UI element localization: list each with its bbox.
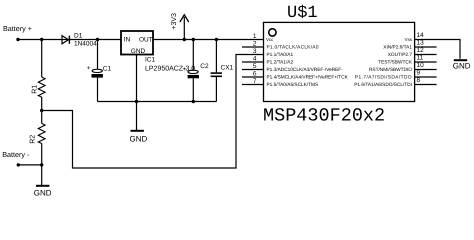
- svg-text:P1.7/A7/SDI/SDA/TDO: P1.7/A7/SDI/SDA/TDO: [355, 75, 412, 81]
- svg-text:R2: R2: [30, 135, 37, 144]
- svg-text:Vss: Vss: [405, 37, 413, 42]
- svg-text:6: 6: [253, 71, 257, 78]
- svg-text:Battery +: Battery +: [3, 24, 32, 33]
- svg-text:XIN/P2.6/TA1: XIN/P2.6/TA1: [383, 45, 412, 51]
- svg-text:U$1: U$1: [287, 4, 318, 23]
- svg-text:Battery -: Battery -: [2, 150, 30, 159]
- svg-text:10: 10: [417, 62, 425, 69]
- svg-text:RST/NMI/SBWTDIO: RST/NMI/SBWTDIO: [369, 67, 412, 73]
- svg-text:P1.0/TACLK/ACLK/A0: P1.0/TACLK/ACLK/A0: [267, 45, 319, 51]
- svg-text:P1.2/TA1/A2: P1.2/TA1/A2: [267, 60, 294, 66]
- svg-text:P1.5/TA0/A5/SCLK/TMS: P1.5/TA0/A5/SCLK/TMS: [267, 82, 319, 88]
- svg-text:9: 9: [417, 70, 421, 77]
- svg-text:GND: GND: [131, 48, 146, 55]
- svg-text:LP2950ACZ-3.0: LP2950ACZ-3.0: [145, 65, 195, 72]
- svg-text:+3V3: +3V3: [171, 13, 178, 30]
- svg-text:3: 3: [253, 48, 257, 55]
- svg-text:12: 12: [417, 47, 425, 54]
- svg-text:13: 13: [417, 40, 425, 47]
- svg-text:GND: GND: [453, 61, 471, 70]
- svg-text:P1.6/TA1/A6/SDO/SCL/TDI: P1.6/TA1/A6/SDO/SCL/TDI: [354, 82, 412, 88]
- svg-text:2: 2: [253, 41, 257, 48]
- svg-text:D1: D1: [74, 33, 83, 40]
- svg-text:OUT: OUT: [139, 37, 153, 44]
- svg-text:14: 14: [417, 32, 425, 39]
- svg-text:11: 11: [417, 55, 424, 62]
- svg-text:P1.1/TA0/A1: P1.1/TA0/A1: [267, 52, 294, 58]
- svg-text:IC1: IC1: [145, 57, 156, 64]
- svg-text:C1: C1: [103, 66, 112, 73]
- svg-text:IN: IN: [124, 37, 131, 44]
- svg-text:4: 4: [253, 56, 257, 63]
- svg-text:8: 8: [417, 77, 421, 84]
- svg-text:CX1: CX1: [221, 65, 234, 72]
- svg-text:GND: GND: [130, 134, 148, 143]
- svg-text:5: 5: [253, 63, 257, 70]
- svg-text:XOUT/P2.7: XOUT/P2.7: [388, 52, 413, 58]
- svg-text:1: 1: [253, 33, 257, 40]
- svg-text:TEST/SBWTCK: TEST/SBWTCK: [378, 60, 413, 66]
- svg-text:MSP430F20x2: MSP430F20x2: [263, 105, 385, 126]
- svg-text:C2: C2: [200, 63, 209, 70]
- svg-text:+: +: [87, 65, 91, 72]
- svg-text:P1.3/ADC10CLK/A3/VREF-/VeREF-: P1.3/ADC10CLK/A3/VREF-/VeREF-: [267, 67, 344, 73]
- svg-text:GND: GND: [34, 189, 52, 198]
- svg-text:P1.4/SMCLK/A4/VREF+/VeREF+/TCK: P1.4/SMCLK/A4/VREF+/VeREF+/TCK: [267, 75, 349, 81]
- svg-text:R1: R1: [32, 85, 39, 94]
- svg-text:1N4004: 1N4004: [74, 41, 97, 48]
- svg-text:Vcc: Vcc: [266, 37, 274, 42]
- svg-text:7: 7: [253, 78, 257, 85]
